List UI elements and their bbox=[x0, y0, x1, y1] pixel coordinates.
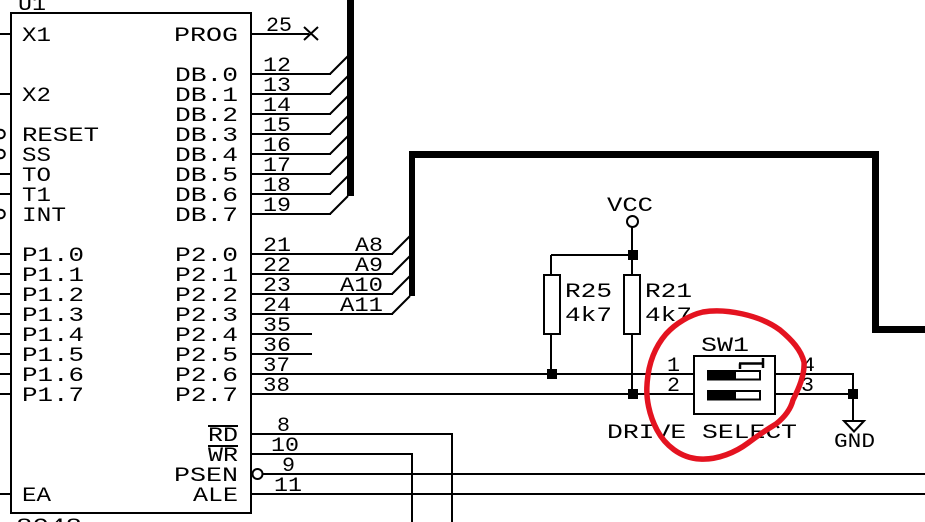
svg-text:INT: INT bbox=[22, 205, 66, 228]
wire pin 10 (WR) bbox=[251, 453, 413, 455]
wire pin 19 (DB.7) bbox=[251, 213, 331, 215]
wire: bus entry diagonal DB.1 bbox=[330, 76, 348, 94]
wire: left pin stub bbox=[0, 333, 11, 335]
wire pin 8 (RD) bbox=[251, 433, 453, 435]
SW1 position indicator bbox=[739, 358, 764, 369]
wire: left pin stub bbox=[0, 313, 11, 315]
wire RD vertical bbox=[451, 433, 453, 522]
wire SW1 pin 3 bbox=[776, 393, 854, 395]
SW1 slider 1 outline bbox=[708, 371, 760, 380]
wire: left pin stub bbox=[0, 353, 11, 355]
SW1 slider 2 black bbox=[707, 390, 736, 401]
wire: left pin stub bbox=[0, 373, 11, 375]
wire pin 11 (ALE) bbox=[251, 493, 925, 495]
SW1 slider 1 black bbox=[707, 370, 736, 381]
overline RD bbox=[208, 425, 238, 427]
svg-text:DB.7: DB.7 bbox=[175, 205, 238, 228]
wire: bus entry diagonal DB.7 bbox=[330, 196, 348, 214]
svg-text:GND: GND bbox=[834, 431, 875, 454]
wire pin 23 (P2.2) bbox=[251, 293, 393, 295]
svg-text:P2.7: P2.7 bbox=[175, 385, 238, 408]
wire pin 21 (P2.0) bbox=[251, 253, 393, 255]
bus: data bus vertical bbox=[347, 0, 354, 196]
svg-text:2: 2 bbox=[667, 375, 680, 398]
wire pin 12 (DB.0) bbox=[251, 73, 331, 75]
wire: left pin stub bbox=[0, 173, 11, 175]
wire pin 36 (P2.5) bbox=[251, 353, 312, 355]
wire pin 38 (P2.7) to SW1 pin 2 bbox=[251, 393, 694, 395]
svg-text:R21: R21 bbox=[645, 281, 692, 304]
wire VCC down bbox=[631, 227, 633, 255]
wire pin 35 (P2.4) bbox=[251, 333, 312, 335]
wire: left pin stub bbox=[0, 273, 11, 275]
wire pin 37 (P2.6) to SW1 pin 1 bbox=[251, 373, 694, 375]
svg-text:PROG: PROG bbox=[174, 25, 238, 48]
wire WR vertical bbox=[411, 453, 413, 522]
bus: address bus vertical bbox=[409, 151, 415, 296]
svg-text:4k7: 4k7 bbox=[565, 305, 612, 328]
wire pin 22 (P2.1) bbox=[251, 273, 393, 275]
wire: bus entry diagonal DB.6 bbox=[330, 176, 348, 194]
wire R21 bottom bbox=[631, 334, 633, 394]
wire to R25 top bbox=[550, 255, 552, 275]
wire: bus entry diagonal DB.3 bbox=[330, 116, 348, 134]
wire: bus entry diagonal A8 bbox=[392, 236, 410, 254]
bus: top horizontal bbox=[409, 151, 879, 158]
active-low bubble PSEN bbox=[253, 469, 263, 479]
junction dot R25/P2.6 bbox=[547, 369, 557, 379]
resistor R21 body bbox=[624, 275, 640, 334]
wire: left pin stub bbox=[0, 193, 11, 195]
IC U1 body bbox=[11, 13, 251, 513]
junction dot VCC node bbox=[628, 250, 638, 260]
active-low bubble bbox=[0, 130, 5, 139]
wire: bus entry diagonal A9 bbox=[392, 256, 410, 274]
wire pin 15 (DB.3) bbox=[251, 133, 331, 135]
junction dot R21/P2.7 bbox=[628, 389, 638, 399]
SW1 slider 2 outline bbox=[708, 391, 760, 400]
svg-text:8048: 8048 bbox=[16, 516, 82, 522]
svg-text:X2: X2 bbox=[22, 85, 51, 108]
svg-text:X1: X1 bbox=[22, 25, 51, 48]
wire pin4 down to GND bbox=[852, 374, 854, 422]
wire: bus entry diagonal DB.0 bbox=[330, 56, 348, 74]
wire to R21 top bbox=[631, 255, 633, 275]
wire SW1 pin 4 bbox=[776, 373, 854, 375]
svg-text:VCC: VCC bbox=[607, 195, 653, 218]
svg-text:U1: U1 bbox=[18, 0, 46, 17]
wire pin 18 (DB.6) bbox=[251, 193, 331, 195]
annotation: red circle around SW1 bbox=[647, 311, 804, 459]
wire: left pin stub bbox=[0, 253, 11, 255]
svg-text:EA: EA bbox=[22, 485, 51, 508]
resistor R25 body bbox=[544, 275, 560, 334]
DIP switch SW1 body bbox=[694, 356, 775, 414]
wire: bus entry diagonal DB.2 bbox=[330, 96, 348, 114]
wire pin 13 (DB.1) bbox=[251, 93, 331, 95]
svg-text:P1.7: P1.7 bbox=[22, 385, 84, 408]
wire pin 24 (P2.3) bbox=[251, 313, 393, 315]
overline WR bbox=[208, 445, 238, 447]
wire R25 bottom bbox=[550, 334, 552, 374]
wire: left pin stub bbox=[0, 393, 11, 395]
wire: bus entry diagonal DB.4 bbox=[330, 136, 348, 154]
no-connect X on pin 25 bbox=[304, 27, 318, 40]
active-low bubble bbox=[0, 150, 5, 159]
wire: left pin stub bbox=[0, 93, 11, 95]
wire: left pin stub bbox=[0, 493, 11, 495]
bus: bottom-right horizontal bbox=[872, 326, 925, 333]
svg-text:R25: R25 bbox=[565, 281, 612, 304]
svg-text:A11: A11 bbox=[340, 295, 383, 318]
wire pin 9 (PSEN) bbox=[263, 473, 925, 475]
wire pin 17 (DB.5) bbox=[251, 173, 331, 175]
wire VCC node horizontal bbox=[551, 254, 633, 256]
wire pin 14 (DB.2) bbox=[251, 113, 331, 115]
wire: bus entry diagonal A11 bbox=[392, 296, 410, 314]
wire pin 16 (DB.4) bbox=[251, 153, 331, 155]
wire: left pin stub bbox=[0, 293, 11, 295]
wire pin 25 (PROG) bbox=[251, 33, 309, 35]
active-low bubble bbox=[0, 210, 5, 219]
wire: left pin stub bbox=[0, 33, 11, 35]
ground symbol bbox=[844, 421, 864, 432]
svg-text:SW1: SW1 bbox=[701, 335, 749, 358]
svg-text:ALE: ALE bbox=[193, 485, 238, 508]
wire: bus entry diagonal DB.5 bbox=[330, 156, 348, 174]
junction dot pin3/pin4 bbox=[848, 389, 858, 399]
VCC terminal circle bbox=[627, 216, 638, 227]
wire: bus entry diagonal A10 bbox=[392, 276, 410, 294]
bus: right vertical bbox=[872, 151, 879, 333]
